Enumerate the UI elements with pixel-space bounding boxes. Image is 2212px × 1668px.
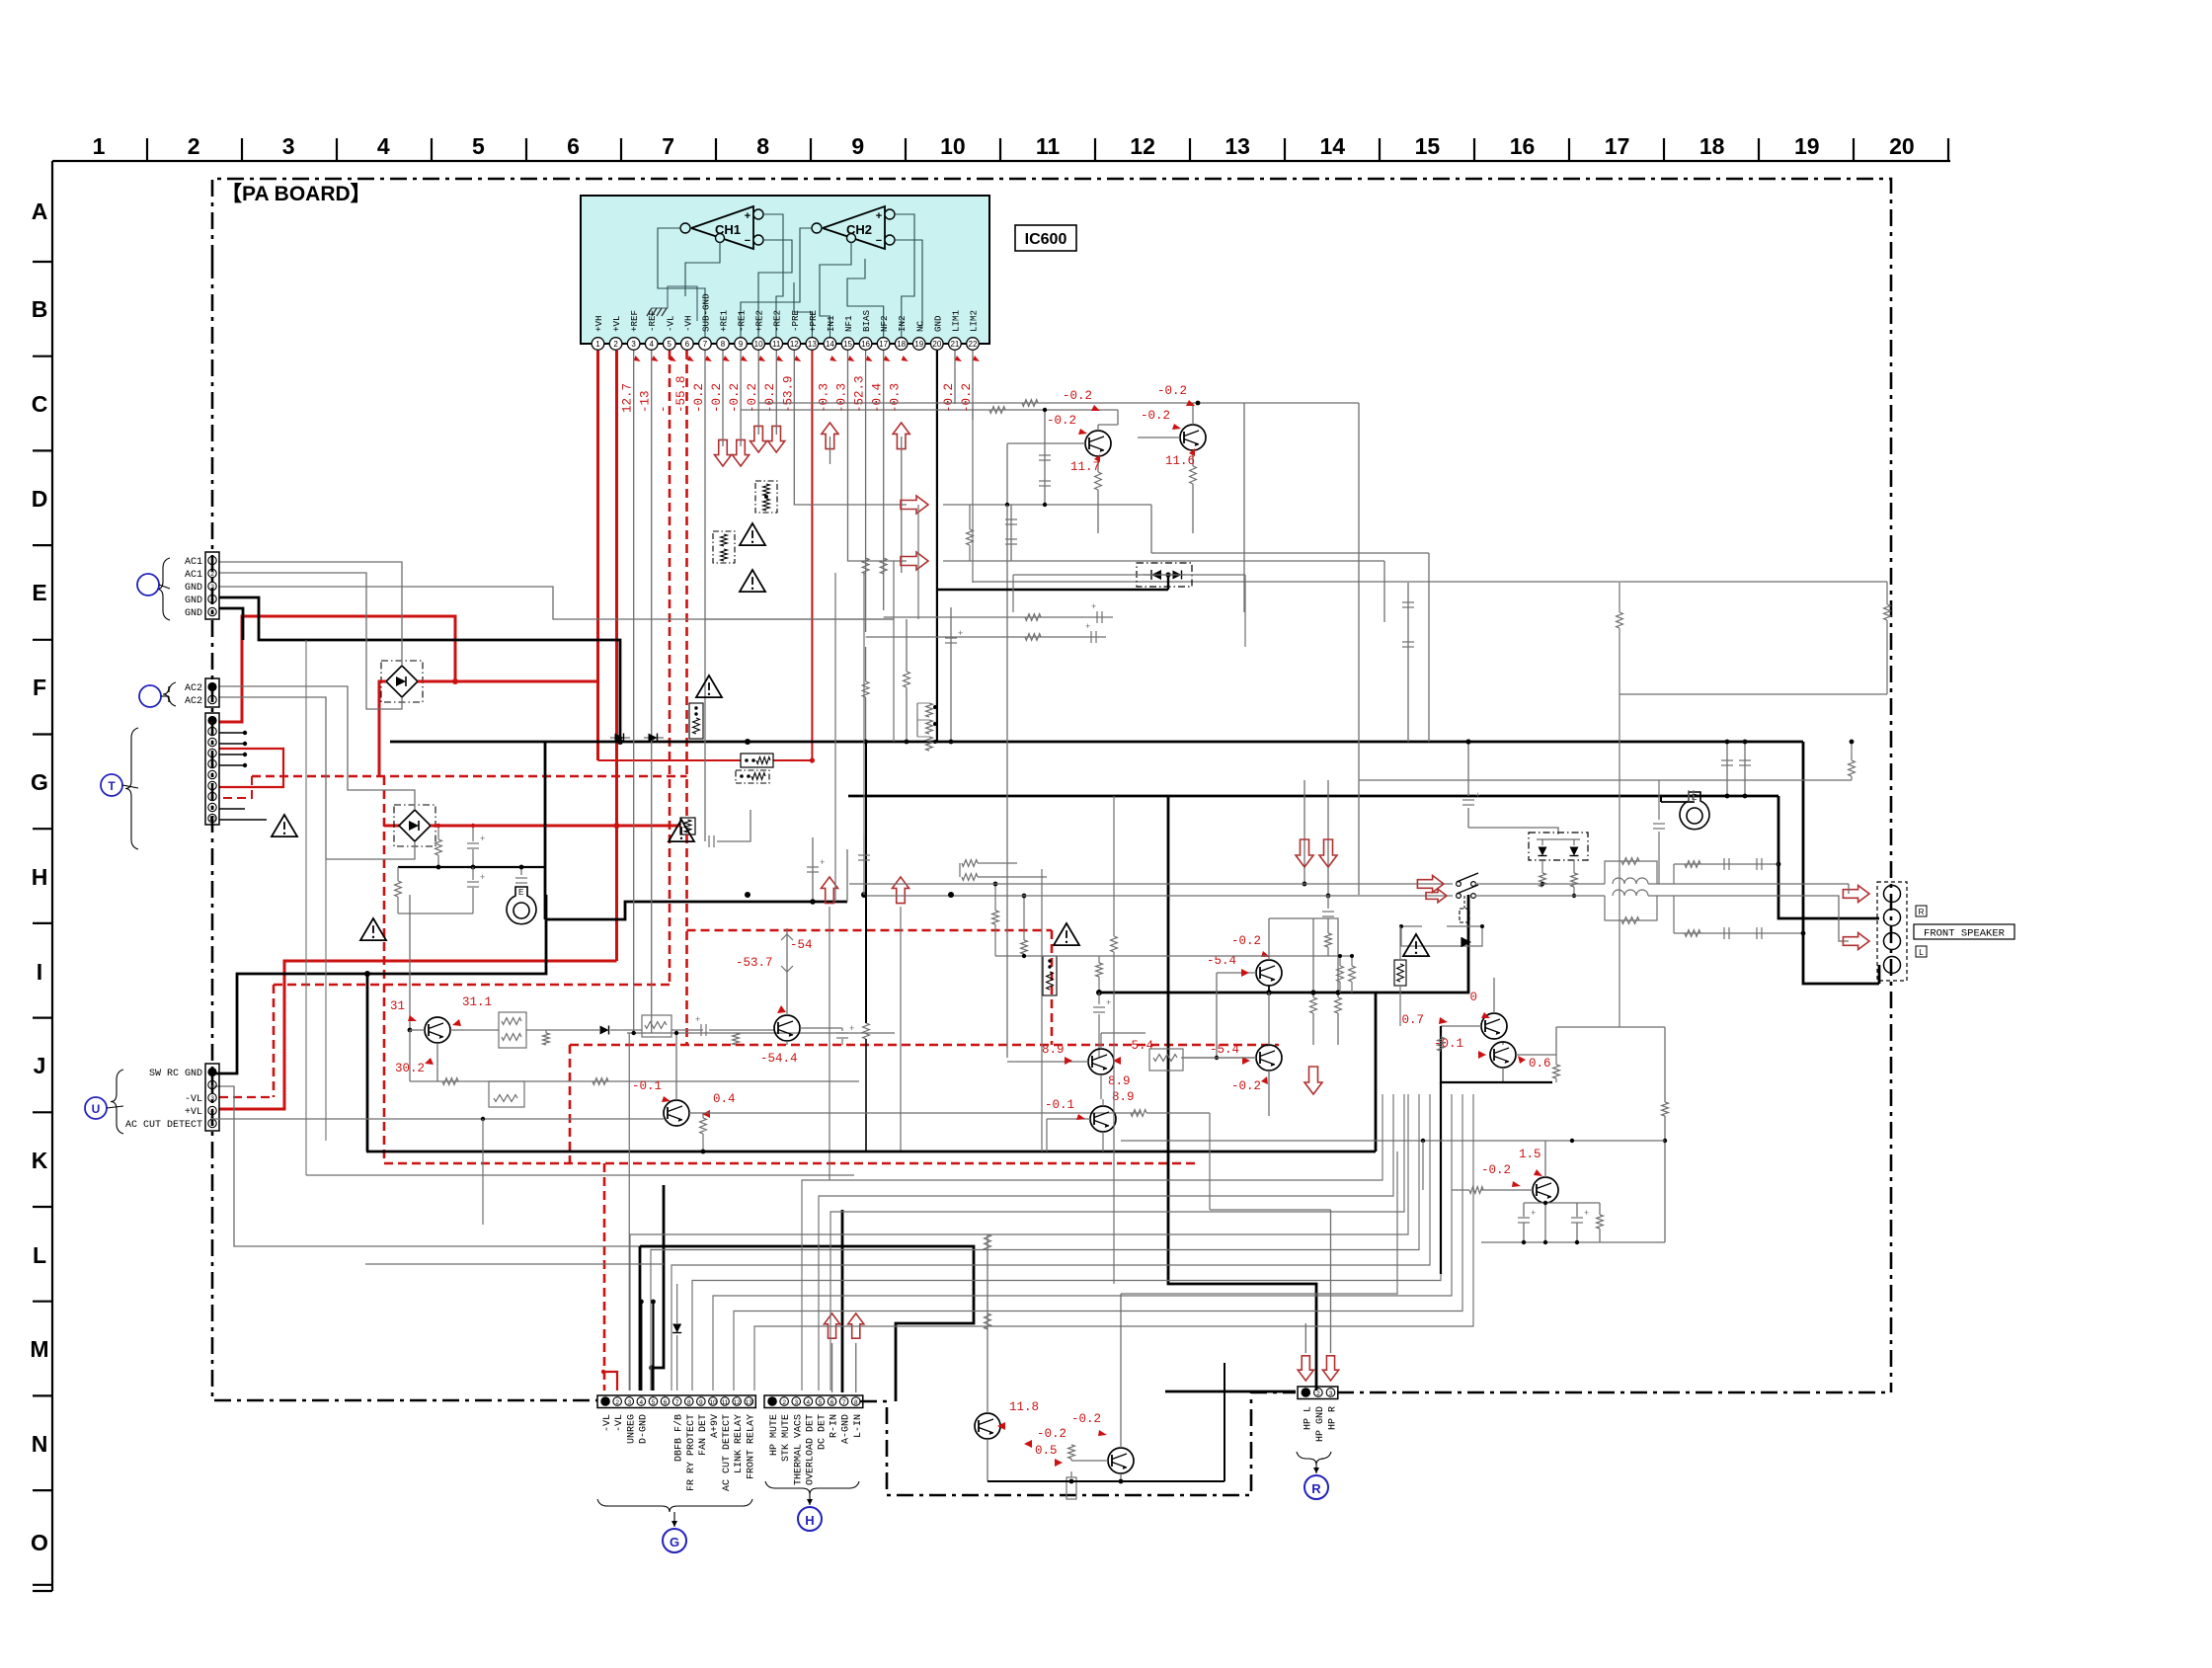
diode J6 [600,1026,609,1035]
resistor E14 [1617,612,1623,628]
wire D-row feedback paths [943,504,1151,506]
svg-text:H: H [32,864,48,890]
svg-text:11.7: 11.7 [1070,460,1100,474]
svg-text:30.2: 30.2 [395,1062,425,1075]
wire feedback line C row lower [741,409,1118,411]
svg-text:3: 3 [210,584,214,591]
svg-text:2: 2 [782,1399,786,1406]
wire dashed rail to connector T [219,776,252,798]
svg-text:5: 5 [668,340,672,349]
wire F9 junctions [863,740,868,745]
svg-text:-5.4: -5.4 [1210,1043,1239,1057]
svg-text:21: 21 [950,340,959,349]
wire pin15 drop [848,351,908,561]
svg-text:5: 5 [210,609,214,616]
speaker sense network [994,884,996,911]
svg-text:R-IN: R-IN [829,1414,840,1438]
svg-text:IN1: IN1 [826,315,836,332]
resistor K12 pair [1337,966,1344,982]
svg-text:2: 2 [210,1082,214,1089]
wire G connector -VL stub [603,1372,617,1390]
wire bold rail G row right [848,795,1778,798]
connector CN602 brace [163,682,176,706]
svg-text:9: 9 [210,805,214,812]
svg-text:2: 2 [615,1399,619,1406]
svg-text:HP GND: HP GND [1315,1406,1326,1442]
svg-text:F: F [33,675,46,700]
svg-text:19: 19 [1794,133,1820,159]
capacitor D10 series [1044,410,1046,505]
connector HP brace [1297,1452,1331,1465]
wire H17 resistor [1849,760,1856,776]
svg-text:13: 13 [746,1399,753,1406]
svg-text:G: G [31,769,48,795]
svg-text:3: 3 [1329,1390,1333,1397]
FRONT SPEAKER label [1914,924,2014,939]
transistor Q623b [1490,1042,1516,1068]
svg-text:FAN DET: FAN DET [698,1414,709,1456]
svg-text:7: 7 [210,783,214,790]
resistor M13 box [1066,1477,1076,1499]
svg-text:+: + [480,834,485,843]
svg-text:5: 5 [210,1121,214,1128]
svg-text:22: 22 [969,340,978,349]
svg-text:13: 13 [1224,133,1250,159]
boxed resistor RS601 [755,481,777,513]
wire dashed riser [1051,930,1054,1045]
warning triangle J9 [1054,923,1079,945]
svg-text:LIM1: LIM1 [950,309,961,332]
wire speaker feed R [1674,883,1849,885]
wire bridge2 output rail [431,825,680,828]
warning triangle I2 left [272,815,297,836]
connector circle H [798,1507,822,1531]
svg-text:31.1: 31.1 [462,995,492,1009]
capacitor F9 electrolytic [950,607,952,672]
fusible resistor PS601 [680,818,695,834]
svg-text:9: 9 [851,133,864,159]
IC600 internal wiring [658,228,705,339]
svg-text:0.5: 0.5 [1035,1444,1058,1458]
wire ground bus left riser [544,742,547,919]
svg-text:M: M [30,1336,48,1362]
svg-text:4: 4 [210,751,214,757]
wire D-row riser [1006,505,1008,1058]
relay coil H13 [1460,909,1469,922]
svg-text:20: 20 [932,340,941,349]
arrow H13 pair [1296,839,1313,867]
wire T connector red link [219,749,283,787]
svg-text:3: 3 [282,133,295,159]
svg-text:1.5: 1.5 [1519,1148,1541,1161]
svg-text:1: 1 [595,340,600,349]
connector G CN605 [597,1395,755,1408]
wire J-M left rails [306,1174,854,1176]
svg-text:STK MUTE: STK MUTE [781,1414,792,1462]
svg-text:8.9: 8.9 [1108,1074,1131,1088]
wire D-GND bold riser [640,1302,642,1390]
svg-text:10: 10 [940,133,966,159]
svg-text:-0.2: -0.2 [1047,414,1076,428]
svg-text:-VL: -VL [185,1094,202,1105]
svg-text:-0.2: -0.2 [728,383,742,413]
svg-text:+PRE: +PRE [808,309,819,332]
row ticks [33,261,52,263]
speaker line L [866,895,1453,897]
wire E12 link [1013,574,1245,576]
boxed resistor RS602 [713,531,735,563]
wire long verticals left [305,640,307,1175]
svg-text:-: - [657,405,671,413]
wire -VL long dashed rail lower [384,1162,1198,1165]
warning triangle K4 [360,918,386,940]
svg-text:E: E [518,888,523,897]
svg-text:15: 15 [1415,133,1441,159]
svg-text:E: E [32,580,46,605]
arrow H8 up [821,877,837,904]
svg-text:-0.2: -0.2 [763,383,777,413]
svg-text:+: + [876,210,882,222]
LC filter R block [1605,861,1657,884]
svg-text:AC CUT DETECT: AC CUT DETECT [125,1120,202,1131]
svg-text:+: + [958,628,963,638]
vertical resistor stack B [1043,956,1057,995]
svg-text:-0.2: -0.2 [692,383,706,413]
wire pin17 drop [883,351,885,610]
wire UNREG riser [628,1033,630,1390]
svg-text:6: 6 [567,133,580,159]
wire M risers [987,1234,988,1284]
svg-text:+: + [1091,601,1096,611]
wire +VL feed from connector U [219,961,617,1109]
svg-text:-0.2: -0.2 [1071,1412,1101,1426]
svg-text:-0.2: -0.2 [1141,409,1170,423]
wire speaker lines to connectors [640,1246,974,1401]
wire J rail from bus [409,895,411,1030]
LC filter L block [1605,896,1657,920]
svg-text:C: C [32,391,48,417]
svg-text:-0.2: -0.2 [942,383,956,413]
wire pin14 drop [829,437,831,464]
wire N-row riser pair [1121,1152,1397,1294]
svg-text:-0.2: -0.2 [1063,389,1092,403]
svg-text:-54.4: -54.4 [760,1052,798,1066]
wire pin18 drop [901,437,903,573]
svg-text:-53.9: -53.9 [781,375,795,413]
svg-text:5: 5 [652,1399,656,1406]
wire ground bus I row [545,902,847,919]
connector CN601 AC1/GND [205,552,219,619]
svg-text:D: D [32,486,48,512]
bridge rectifier D601 [386,666,418,697]
svg-text:IC600: IC600 [1025,231,1067,248]
warning triangle E8 [740,570,765,592]
svg-text:1: 1 [93,133,106,159]
resistor D9 [967,529,974,545]
wire HP risers [1304,1323,1306,1353]
wire bus to speaker connector [1376,895,1468,993]
svg-text:6: 6 [685,340,690,349]
svg-text:4: 4 [640,1399,644,1406]
connector circle U [85,1097,107,1119]
transistor Q612 [774,1015,800,1041]
svg-text:GND: GND [185,583,202,594]
svg-text:I: I [37,959,42,985]
svg-text:+RE2: +RE2 [754,310,765,332]
wire pin20 GND drop [936,351,938,742]
svg-text:20: 20 [1889,133,1915,159]
wire row J node rail [627,1032,895,1034]
connector G brace [597,1499,752,1512]
svg-text:14: 14 [826,340,834,349]
warning triangle I12 [1403,934,1429,956]
svg-text:4: 4 [649,340,654,349]
svg-text:3: 3 [794,1399,798,1406]
resistors under diode pack [1541,860,1543,873]
svg-text:-0.3: -0.3 [834,383,848,413]
arrow D9b right [901,552,928,570]
transistor Q632 [1108,1448,1134,1473]
svg-text:【PA BOARD】: 【PA BOARD】 [221,183,371,205]
boxed resistor I12 [1394,960,1406,986]
diode D612 [644,737,664,739]
wire M-row gnd [987,1480,1224,1482]
svg-text:+: + [1106,997,1111,1007]
capacitor I4 [467,881,479,883]
wire pin16 drop [865,351,867,632]
svg-text:HP L: HP L [1303,1406,1313,1430]
svg-text:9: 9 [739,340,744,349]
resistor pair K11b [1149,1049,1183,1071]
svg-text:+: + [849,1023,854,1033]
resistor pair I10 [962,860,978,867]
svg-text:3: 3 [210,740,214,747]
boxed resistor RS603 [736,770,769,783]
transistor Q602 [1180,425,1206,450]
svg-text:AC1: AC1 [185,570,202,581]
wire +VH pin1 drop [596,351,599,760]
wire bridge1 output to +VH rail [418,680,598,683]
wire dashed branch [383,776,386,1163]
svg-text:FRONT SPEAKER: FRONT SPEAKER [1924,928,2006,940]
wire -VL long dashed rail upper [252,775,687,778]
connector CN601 brace [157,558,170,620]
resistor pair J4b [489,1081,524,1107]
transistor Q621 [1256,960,1282,986]
wire right vertical rails [1358,780,1360,895]
svg-text:14: 14 [1320,133,1346,159]
wire pin8 drop [722,351,724,446]
connector T brace [125,728,138,849]
connector H brace [765,1481,859,1494]
IC600 reference label [1015,225,1076,251]
svg-text:+: + [695,1014,700,1024]
svg-text:AC2: AC2 [185,683,202,694]
op-amp CH1 [691,206,753,249]
svg-text:4: 4 [210,1108,214,1115]
speaker R label [1916,906,1927,916]
diode pack E15 [1137,563,1192,587]
svg-text:3: 3 [210,1095,214,1102]
svg-text:-PRE: -PRE [790,309,801,332]
svg-text:4: 4 [210,596,214,603]
wire I4 bold link [398,866,545,868]
svg-text:16: 16 [1510,133,1536,159]
svg-text:5: 5 [210,761,214,768]
snubber RC L [1674,932,1777,934]
wire riser fan lower [630,1094,1408,1390]
svg-text:BIAS: BIAS [861,309,872,332]
svg-text:-RE2: -RE2 [772,310,783,332]
svg-text:-RE1: -RE1 [737,309,748,332]
connector SPEAKER CN608 [1877,882,1907,981]
wire H connector A-GND riser [841,1210,844,1392]
svg-text:-VH: -VH [682,315,693,332]
speaker line R [849,883,1453,885]
svg-text:4: 4 [377,133,390,159]
svg-text:-0.2: -0.2 [1037,1427,1066,1441]
connector circle T [101,774,122,796]
wire pin10 drop [757,351,759,435]
diode D611 [610,737,630,739]
resistor pair J5 [499,1012,526,1048]
svg-text:J: J [34,1053,46,1078]
svg-text:R: R [1919,908,1925,916]
svg-text:8.9: 8.9 [1112,1090,1135,1104]
wire speaker R return [1778,796,1879,918]
svg-text:B: B [32,296,48,322]
connector circle E2 [137,574,159,596]
svg-text:N: N [32,1431,48,1457]
capacitor G16 pair [1726,742,1728,796]
svg-text:8: 8 [721,340,726,349]
wire output bus right [1099,993,1376,1152]
wire pin12 drop [794,351,907,505]
warning triangle F7 [696,675,722,697]
capacitor H15 electrolytic [1467,742,1469,796]
svg-text:−: − [745,235,750,247]
wire Q626 links [1046,1119,1048,1152]
svg-text:A: A [32,199,48,224]
IC600 pins [592,338,604,351]
wire I-row right spans [1359,779,1852,781]
wire speaker feed L [1674,896,1849,941]
connector circle F2 [139,685,161,707]
svg-text:A-GND: A-GND [841,1414,852,1444]
svg-text:6: 6 [664,1399,668,1406]
capacitor I13 [1327,896,1329,909]
svg-text:8.9: 8.9 [1042,1043,1065,1057]
svg-text:+: + [820,857,825,867]
transistor Q622 [1256,1045,1282,1071]
svg-text:GND: GND [185,608,202,619]
svg-text:NC: NC [914,320,925,332]
wire E-row h-links [884,616,1113,618]
wire -54 dashed rail [570,1044,1279,1047]
svg-text:8: 8 [854,1399,858,1406]
svg-text:10: 10 [709,1399,717,1406]
svg-text:12.7: 12.7 [621,383,635,413]
svg-text:AC2: AC2 [185,696,202,707]
svg-text:-0.2: -0.2 [710,383,724,413]
snubber RC R [1674,863,1777,865]
svg-text:3: 3 [627,1399,631,1406]
svg-text:11.8: 11.8 [1009,1400,1039,1414]
wire -VL lower dashed rail [274,984,670,987]
warning triangle D8 [740,523,765,545]
wire +VL pin2 drop [615,351,618,961]
svg-text:+: + [1475,790,1480,800]
svg-text:+RE1: +RE1 [718,309,729,332]
svg-text:10: 10 [754,340,763,349]
svg-text:IN2: IN2 [897,315,908,332]
connector H arrows [824,1313,839,1338]
svg-text:10: 10 [208,816,216,823]
wire long vertical rails centre [834,573,836,902]
arrow H12 speaker feeds [1417,875,1444,892]
svg-text:L: L [1919,948,1924,957]
svg-text:17: 17 [1605,133,1630,159]
svg-text:GND: GND [932,315,943,332]
svg-text:7: 7 [662,133,674,159]
wire J-row lower [410,1080,859,1082]
svg-text:-0.3: -0.3 [889,383,903,413]
svg-text:-VL: -VL [602,1414,613,1432]
resistor K11 [1096,963,1103,977]
wire pin3 drop [633,351,635,1033]
svg-text:K: K [32,1148,48,1173]
transistor Q626 [1090,1106,1116,1132]
connector U brace [111,1070,123,1134]
border frame left line [51,161,53,1591]
svg-text:18: 18 [897,340,906,349]
wire dashed drop to G connector [603,1163,606,1390]
wire GND stub [219,608,243,640]
wire mid couplers [708,835,710,847]
svg-text:-0.2: -0.2 [1481,1163,1511,1177]
relay RY602 [507,887,536,924]
svg-text:0: 0 [1469,991,1477,1004]
svg-text:8: 8 [756,133,769,159]
wire GND bus from connector CN1 [219,597,620,741]
svg-text:-13: -13 [639,390,653,413]
svg-text:2: 2 [1316,1390,1320,1397]
connector T CN603 [205,713,219,825]
svg-text:H: H [805,1513,814,1528]
svg-text:-52.3: -52.3 [853,375,867,413]
wire E-row resistor rails [866,636,1106,638]
svg-text:AC1: AC1 [185,557,202,568]
svg-text:D-GND: D-GND [638,1414,649,1444]
svg-text:11: 11 [772,340,781,349]
bridge rectifier D602 [399,810,431,841]
svg-text:+VH: +VH [593,315,604,332]
svg-text:+: + [1085,621,1090,631]
wire pin21 drop [954,351,956,404]
svg-text:-REF: -REF [647,310,658,332]
wire F17 link [1619,693,1887,695]
svg-text:-0.1: -0.1 [632,1079,662,1093]
diode pack H15 [1529,833,1588,860]
svg-text:U: U [92,1102,101,1116]
svg-text:2: 2 [210,697,214,704]
svg-text:8: 8 [687,1399,691,1406]
svg-text:-0.4: -0.4 [871,383,885,413]
capacitor E13 [1402,601,1414,603]
connector H CN606 [764,1395,863,1408]
svg-text:7: 7 [703,340,708,349]
svg-text:SUB-GND: SUB-GND [700,293,711,332]
